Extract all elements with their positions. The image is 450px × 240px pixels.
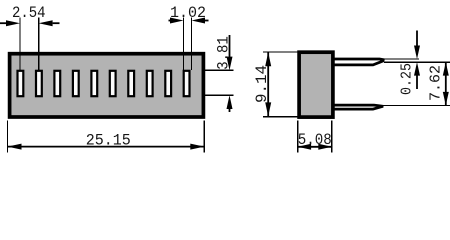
dimension 3.81 extension line bottom: [205, 94, 234, 96]
dimension 3.81 top arrow: [229, 35, 231, 58]
svg-text:2.54: 2.54: [12, 4, 46, 22]
dimension 9.14 extension line top: [263, 51, 298, 53]
svg-text:1.02: 1.02: [170, 4, 206, 22]
top pin: [333, 58, 385, 61]
front view body: [10, 54, 204, 117]
svg-text:0.25: 0.25: [399, 63, 416, 95]
slot 2: [36, 71, 42, 96]
dimension 2.54 extension line left: [19, 18, 21, 71]
slot 9: [165, 71, 171, 96]
dimension 5.08 extension line right: [331, 121, 333, 153]
pin top extension line lower / 7.62 top extension: [384, 61, 450, 63]
dimension 1.02 extension line right: [191, 18, 193, 71]
dimension 1.02 left arrow: [169, 20, 171, 22]
dimension 5.08 line with arrows: [298, 146, 332, 148]
slot 3: [54, 71, 60, 96]
svg-text:9.14: 9.14: [253, 65, 271, 103]
dimension 2.54 right arrow: [53, 22, 60, 24]
slot 5: [91, 71, 97, 96]
pin top extension line upper: [384, 58, 419, 60]
dimension 25.15 extension line left: [7, 121, 9, 153]
dimension 1.02 extension line left: [183, 18, 185, 71]
pin bottom extension line / 7.62 bottom extension: [384, 104, 450, 106]
dimension 9.14 extension line bottom: [263, 116, 298, 118]
dimension 2.54 left arrow: [0, 22, 7, 24]
dimension 3.81 bottom arrow: [229, 108, 231, 112]
dimension 7.62 line with arrows: [445, 62, 447, 105]
svg-text:5.08: 5.08: [298, 131, 332, 149]
svg-text:25.15: 25.15: [86, 132, 131, 150]
dimension 5.08 extension line left: [297, 121, 299, 153]
dimension 0.25 top arrow: [416, 31, 418, 48]
slot 4: [73, 71, 79, 96]
dimension 25.15 line with arrows: [8, 146, 205, 148]
bottom pin: [333, 105, 384, 106]
slot 8: [147, 71, 153, 96]
dimension 1.02 right arrow: [205, 20, 209, 22]
slot 7: [128, 71, 134, 96]
slot 1: [18, 71, 24, 96]
svg-text:7.62: 7.62: [427, 65, 444, 101]
svg-text:3.81: 3.81: [214, 36, 232, 70]
slot 10: [184, 71, 190, 96]
dimension 2.54 extension line right: [38, 18, 40, 71]
dimension 25.15 extension line right: [203, 121, 205, 153]
side view body: [299, 52, 333, 117]
dimension 9.14 line with arrows: [267, 52, 269, 116]
slot 6: [110, 71, 116, 96]
dimension 0.25 bottom arrow: [416, 74, 418, 89]
dimension 3.81 extension line top: [205, 69, 234, 71]
